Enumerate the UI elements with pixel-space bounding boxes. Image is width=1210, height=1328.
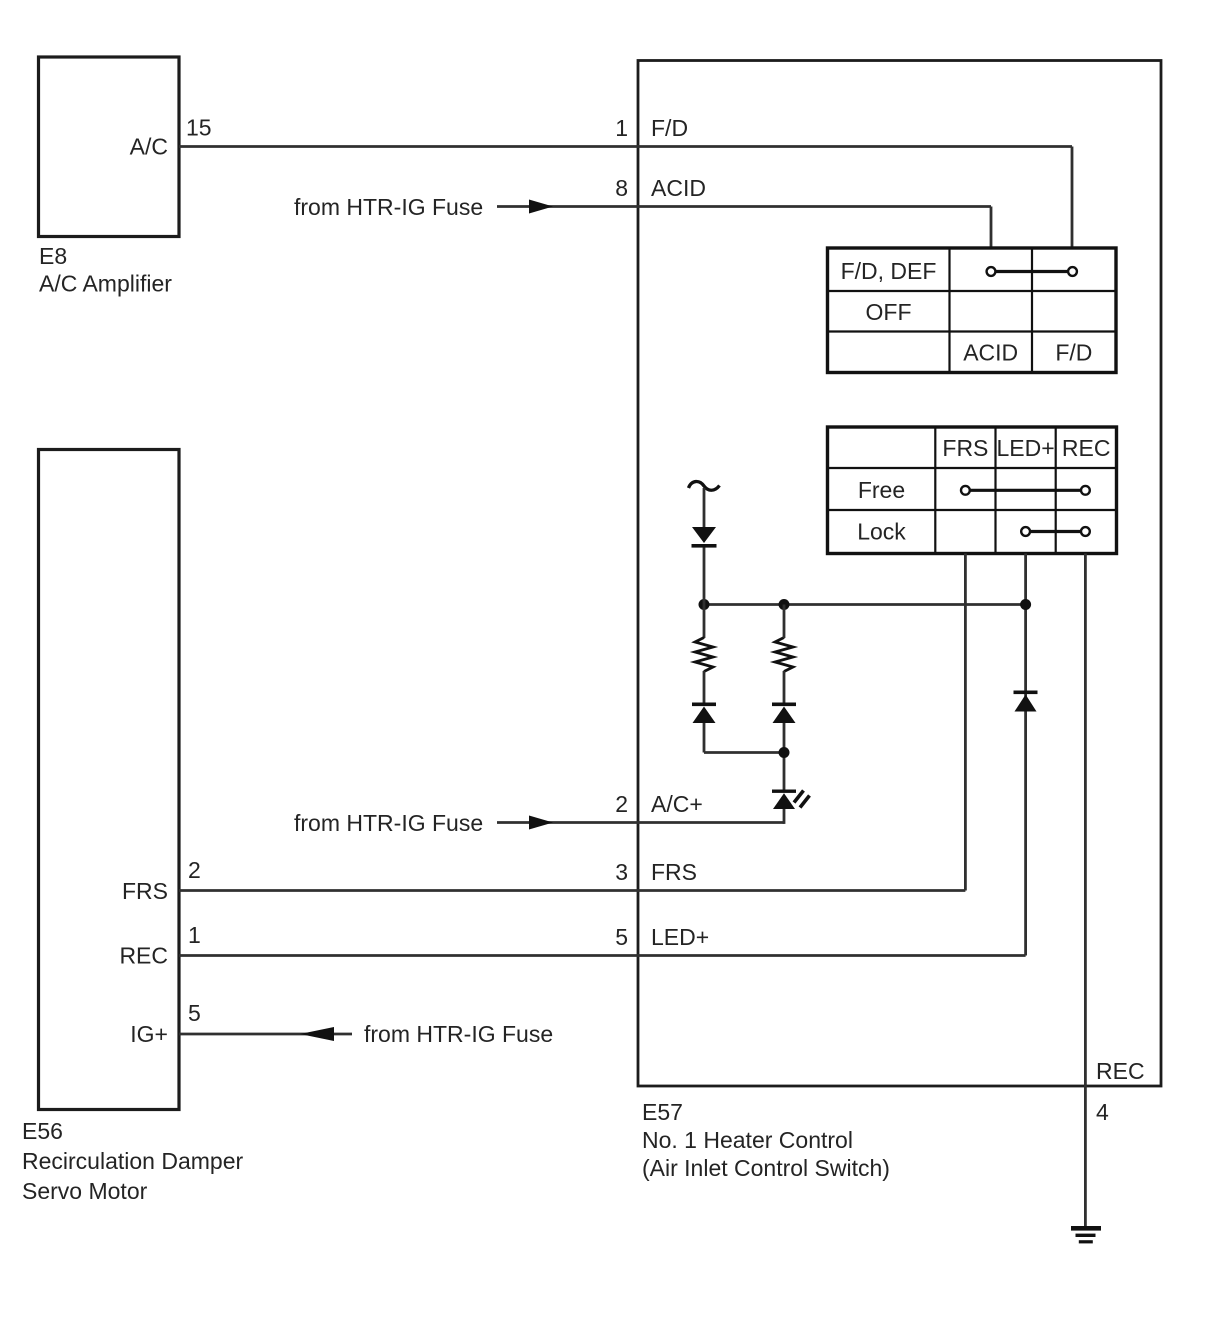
wire: R1 to diode D2 bbox=[703, 671, 706, 703]
svg-text:FRS: FRS bbox=[942, 435, 988, 461]
wire: D1 to bus bbox=[703, 548, 706, 639]
switch contact S1: F/D,DEF position bbox=[987, 267, 1077, 276]
resistor R1 bbox=[695, 638, 713, 672]
svg-text:REC: REC bbox=[119, 943, 168, 969]
svg-text:2: 2 bbox=[188, 857, 201, 883]
svg-text:2: 2 bbox=[615, 791, 628, 817]
wire: tilde to diode D1 bbox=[703, 488, 706, 528]
diode D4 on LED+ wire (cathode up) bbox=[1014, 691, 1038, 712]
svg-text:Recirculation Damper: Recirculation Damper bbox=[22, 1148, 243, 1174]
svg-text:3: 3 bbox=[615, 859, 628, 885]
wire IG+: E56 pin 5 from HTR-IG fuse bbox=[179, 1033, 352, 1036]
svg-text:A/C: A/C bbox=[130, 134, 168, 160]
svg-text:1: 1 bbox=[188, 922, 201, 948]
svg-text:from HTR-IG Fuse: from HTR-IG Fuse bbox=[364, 1021, 553, 1047]
switch table S1 (F/D,DEF / OFF / ACID F/D) bbox=[828, 248, 1117, 373]
svg-text:4: 4 bbox=[1096, 1099, 1109, 1125]
svg-text:No. 1 Heater Control: No. 1 Heater Control bbox=[642, 1127, 853, 1153]
wire F/D: E8 pin 15 to E57 pin 1 bbox=[179, 145, 1072, 148]
connector box E56 bbox=[39, 450, 180, 1110]
svg-text:OFF: OFF bbox=[866, 299, 912, 325]
wire: bus to R2 bbox=[783, 605, 786, 639]
connector box E8 bbox=[39, 57, 180, 237]
svg-text:Lock: Lock bbox=[857, 519, 906, 545]
wire A/C+: from HTR-IG fuse to LED chain bbox=[497, 821, 784, 824]
junction dot at cross link / LED chain bbox=[779, 747, 790, 758]
ground symbol bbox=[1071, 1226, 1101, 1243]
svg-text:REC: REC bbox=[1062, 435, 1111, 461]
wire FRS: E56 pin 2 to E57 pin 3 bbox=[179, 889, 965, 892]
svg-text:from HTR-IG Fuse: from HTR-IG Fuse bbox=[294, 194, 483, 220]
svg-text:ACID: ACID bbox=[963, 340, 1018, 366]
svg-text:A/C Amplifier: A/C Amplifier bbox=[39, 271, 172, 297]
svg-text:Servo Motor: Servo Motor bbox=[22, 1178, 148, 1204]
coil/pickup symbol (tilde) bbox=[689, 482, 720, 491]
svg-text:F/D: F/D bbox=[651, 115, 688, 141]
wire REC/LED+: E56 pin 1 to E57 pin 5 bbox=[179, 954, 1026, 957]
junction dot at bus / left chain bbox=[699, 599, 710, 610]
arrow from HTR-IG Fuse (pin 8) bbox=[529, 200, 553, 214]
svg-text:ACID: ACID bbox=[651, 175, 706, 201]
svg-text:5: 5 bbox=[188, 1000, 201, 1026]
wire: F/D drop into switch table F/D column bbox=[1071, 147, 1074, 250]
svg-text:IG+: IG+ bbox=[130, 1021, 168, 1047]
svg-text:F/D, DEF: F/D, DEF bbox=[841, 258, 937, 284]
wire: D2 down to cross link bbox=[703, 723, 706, 753]
wire: FRS column stub down to pin 3 wire bbox=[964, 554, 967, 891]
svg-text:15: 15 bbox=[186, 115, 212, 141]
svg-text:1: 1 bbox=[615, 115, 628, 141]
wire: cross link between chains bbox=[704, 751, 784, 754]
svg-text:F/D: F/D bbox=[1055, 340, 1092, 366]
svg-text:Free: Free bbox=[858, 477, 905, 503]
junction dot at bus / LED+ wire bbox=[1020, 599, 1031, 610]
wire: D3 down to LED bbox=[783, 723, 786, 790]
node: internal bus bbox=[704, 603, 1026, 606]
svg-text:from HTR-IG Fuse: from HTR-IG Fuse bbox=[294, 810, 483, 836]
diode D3 (cathode up) bbox=[772, 703, 796, 724]
wire: R2 to diode D3 bbox=[783, 671, 786, 703]
wire: ACID drop into switch table ACID column bbox=[990, 207, 993, 250]
wire ACID: from HTR-IG fuse to E57 pin 8 bbox=[497, 205, 991, 208]
switch contact S2: Lock position bbox=[1021, 527, 1090, 536]
svg-text:REC: REC bbox=[1096, 1058, 1145, 1084]
diode D2 (cathode up) bbox=[692, 703, 716, 724]
junction dot at bus / right chain bbox=[779, 599, 790, 610]
svg-text:LED+: LED+ bbox=[651, 924, 709, 950]
wire: LED+ column stub down to pin 5 wire bbox=[1024, 554, 1027, 956]
svg-text:FRS: FRS bbox=[122, 878, 168, 904]
svg-text:E56: E56 bbox=[22, 1118, 63, 1144]
switch contact S2: Free position bbox=[961, 486, 1090, 495]
svg-text:E57: E57 bbox=[642, 1099, 683, 1125]
wire: LED to A/C+ pin wire bbox=[783, 809, 786, 824]
arrow from HTR-IG Fuse (IG+, pointing left) bbox=[300, 1027, 334, 1041]
svg-text:8: 8 bbox=[615, 175, 628, 201]
svg-text:A/C+: A/C+ bbox=[651, 791, 703, 817]
switch table S2 (Free/Lock vs FRS LED+ REC) bbox=[828, 427, 1117, 554]
connector box E57 bbox=[638, 61, 1161, 1087]
LED D5 (cathode up, with light arrows) bbox=[772, 790, 810, 810]
svg-text:LED+: LED+ bbox=[997, 435, 1055, 461]
svg-text:(Air Inlet Control Switch): (Air Inlet Control Switch) bbox=[642, 1155, 890, 1181]
svg-text:FRS: FRS bbox=[651, 859, 697, 885]
svg-text:5: 5 bbox=[615, 924, 628, 950]
svg-text:E8: E8 bbox=[39, 243, 67, 269]
wire: REC column down to ground bbox=[1084, 554, 1087, 1227]
resistor R2 bbox=[775, 638, 793, 672]
arrow from HTR-IG Fuse (pin 2) bbox=[529, 816, 553, 830]
diode D1 (cathode down) bbox=[692, 527, 717, 548]
